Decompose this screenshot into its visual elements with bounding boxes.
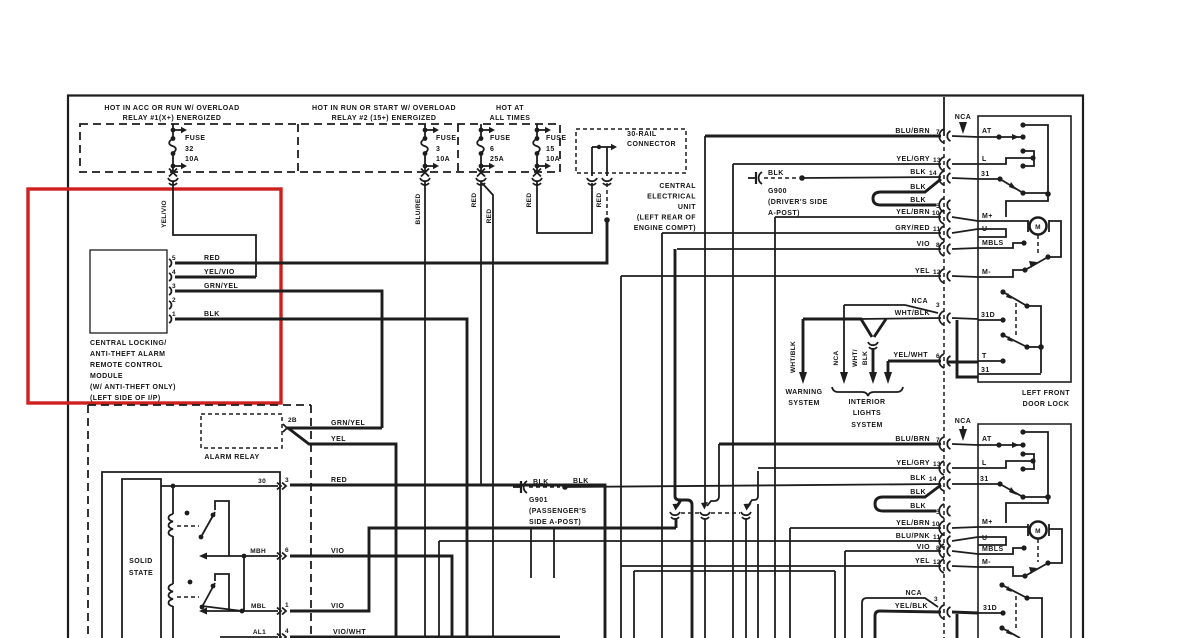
svg-text:FUSE: FUSE [436, 135, 456, 142]
module pin 4 [169, 273, 171, 281]
wire RED dashed 30-rail right pin [606, 183, 608, 217]
svg-text:WARNING: WARNING [786, 389, 823, 396]
module pin 5 [169, 259, 171, 267]
31D switch upper [1000, 289, 1005, 294]
svg-text:4: 4 [285, 628, 289, 635]
svg-text:M: M [1035, 528, 1041, 535]
31D switch lower bottom [999, 625, 1004, 630]
svg-text:MBLS: MBLS [982, 546, 1004, 553]
svg-text:YEL/GRY: YEL/GRY [896, 460, 930, 467]
switch 1 [177, 525, 199, 527]
link MBH-MBL [243, 556, 245, 611]
gang dashed line [681, 512, 740, 514]
svg-text:CENTRAL: CENTRAL [659, 183, 696, 190]
wire VIO pin6 [290, 556, 452, 638]
svg-text:NCA: NCA [955, 418, 972, 425]
svg-text:WHT/: WHT/ [852, 349, 859, 367]
svg-text:14: 14 [929, 476, 937, 483]
svg-text:VIO/WHT: VIO/WHT [333, 629, 366, 636]
pin 30/3 [161, 485, 278, 487]
svg-text:RED: RED [526, 193, 533, 208]
wire YEL/GRY bottom row [758, 467, 941, 469]
svg-text:(W/ ANTI-THEFT ONLY): (W/ ANTI-THEFT ONLY) [90, 384, 176, 391]
svg-text:3: 3 [934, 596, 938, 603]
wire YEL bottom row [621, 565, 941, 567]
dashed coupler bottom [1015, 596, 1017, 628]
svg-text:M-: M- [982, 559, 991, 566]
svg-text:ENGINE COMPT): ENGINE COMPT) [634, 225, 696, 232]
connector-to-box stubs top section [952, 136, 978, 319]
svg-text:6: 6 [490, 146, 494, 153]
svg-text:31: 31 [981, 171, 990, 178]
wire WHT/BLK row [859, 318, 941, 319]
M- switch arm bottom [1025, 563, 1048, 576]
svg-text:BLU/BRN: BLU/BRN [895, 436, 930, 443]
svg-text:RELAY #1(X+) ENERGIZED: RELAY #1(X+) ENERGIZED [123, 115, 222, 122]
svg-text:10A: 10A [185, 156, 199, 163]
svg-text:WHT/BLK: WHT/BLK [895, 310, 930, 317]
svg-text:MBL: MBL [251, 603, 266, 610]
svg-text:BLU/RED: BLU/RED [415, 194, 422, 225]
31D-31 bottom link [956, 614, 959, 638]
svg-text:(LEFT SIDE OF I/P): (LEFT SIDE OF I/P) [90, 395, 161, 402]
switch 2 [177, 596, 199, 598]
svg-text:LIGHTS: LIGHTS [853, 410, 881, 417]
svg-text:SYSTEM: SYSTEM [788, 400, 819, 407]
pin MBH/6 [207, 555, 278, 557]
svg-text:32: 32 [185, 146, 194, 153]
30-rail pins [587, 144, 617, 185]
svg-text:YEL: YEL [915, 268, 930, 275]
svg-text:RED: RED [331, 477, 347, 484]
svg-text:AT: AT [982, 128, 992, 135]
svg-text:LEFT FRONT: LEFT FRONT [1022, 390, 1070, 397]
wire GRN/YEL 2B [287, 427, 382, 430]
pin MBL/1 [207, 610, 278, 612]
red highlight box [28, 189, 281, 403]
wire YEL/VIO pin4 [175, 276, 256, 279]
relay coil 1 [171, 484, 176, 489]
svg-text:INTERIOR: INTERIOR [848, 399, 885, 406]
Y3 tail down [745, 518, 747, 638]
svg-text:UNIT: UNIT [678, 204, 696, 211]
M- switch arm [1025, 257, 1048, 270]
svg-text:BLK: BLK [910, 184, 926, 191]
inline connector Y1 [670, 512, 680, 519]
wire NCA bottom row [862, 598, 867, 638]
svg-text:HOT IN ACC OR RUN W/ OVERLOAD: HOT IN ACC OR RUN W/ OVERLOAD [104, 105, 239, 112]
motor dashed link [1037, 235, 1039, 256]
svg-text:30-RAIL: 30-RAIL [627, 131, 657, 138]
wire YEL row [621, 275, 941, 277]
fuse 6 [476, 124, 510, 185]
wire GRY/RED row [662, 232, 941, 234]
svg-text:BLK: BLK [910, 475, 926, 482]
solid state box [102, 472, 280, 638]
BLK bottom loop [875, 485, 941, 511]
inline connector Y2 [700, 512, 710, 519]
svg-text:10A: 10A [436, 156, 450, 163]
svg-text:T: T [982, 353, 987, 360]
wire RED branch fuse 6 [482, 183, 493, 638]
svg-text:FUSE: FUSE [185, 135, 205, 142]
Y1 tail to junction [675, 518, 678, 528]
svg-text:5: 5 [172, 255, 176, 262]
svg-text:YEL/VIO: YEL/VIO [204, 269, 235, 276]
svg-text:HOT AT: HOT AT [496, 105, 524, 112]
wire VIO drop to Y1 [675, 249, 692, 638]
svg-text:NCA: NCA [955, 114, 972, 121]
wire RED pin5 [175, 220, 607, 263]
svg-text:GRY/RED: GRY/RED [895, 225, 930, 232]
svg-text:14: 14 [929, 170, 937, 177]
YEL/BRN bottom corner drop [789, 528, 791, 638]
wire GRY/RED drop [661, 233, 663, 638]
svg-text:2: 2 [172, 297, 176, 304]
svg-text:15: 15 [546, 146, 555, 153]
module pin 2 [169, 301, 171, 309]
svg-text:AL1: AL1 [253, 629, 266, 636]
pin AL1/4 [220, 636, 278, 638]
svg-text:10A: 10A [546, 156, 560, 163]
31D switch upper bottom [999, 582, 1004, 587]
svg-text:2B: 2B [288, 417, 297, 424]
svg-text:BLK: BLK [533, 479, 549, 486]
svg-text:(PASSENGER'S: (PASSENGER'S [529, 508, 587, 515]
interior lights brace [832, 387, 903, 396]
motor right rail bottom [1049, 529, 1062, 563]
svg-text:4: 4 [172, 269, 176, 276]
dashed coupler [1015, 303, 1017, 337]
svg-text:3: 3 [285, 477, 289, 484]
svg-text:STATE: STATE [129, 570, 153, 577]
svg-text:NCA: NCA [833, 351, 840, 366]
svg-text:L: L [982, 460, 987, 467]
motor M [1030, 218, 1047, 235]
svg-text:NCA: NCA [911, 298, 928, 305]
svg-text:BLK: BLK [910, 503, 926, 510]
svg-text:DOOR LOCK: DOOR LOCK [1023, 401, 1070, 408]
motor dashed link bottom [1037, 539, 1039, 562]
svg-text:BLK: BLK [862, 351, 869, 365]
svg-text:REMOTE CONTROL: REMOTE CONTROL [90, 362, 163, 369]
wire 31D to 31 link [957, 320, 978, 377]
svg-text:M+: M+ [982, 519, 993, 526]
svg-text:25A: 25A [490, 156, 504, 163]
svg-text:ELECTRICAL: ELECTRICAL [647, 194, 696, 201]
svg-text:RED: RED [486, 209, 493, 224]
wire YEL/BRN bottom row [790, 527, 941, 529]
wire YEL/VIO from fuse 32 [173, 182, 256, 277]
inline connector Y3 [741, 512, 751, 519]
svg-text:3: 3 [172, 283, 176, 290]
svg-text:BLK: BLK [768, 170, 784, 177]
central locking module box [90, 250, 167, 333]
relay coil 2 [169, 584, 174, 607]
warning system arrow [802, 319, 805, 372]
svg-text:YEL/WHT: YEL/WHT [893, 352, 928, 359]
wire GRN/YEL pin3 [175, 291, 382, 428]
svg-text:31D: 31D [981, 312, 995, 319]
svg-text:1: 1 [285, 602, 289, 609]
connector-to-box stubs bottom section [952, 444, 978, 567]
wire YEL/GRY row [733, 163, 941, 165]
motor right rail [1049, 221, 1061, 257]
svg-text:RED: RED [204, 255, 220, 262]
svg-text:1: 1 [172, 311, 176, 318]
svg-text:YEL/GRY: YEL/GRY [896, 156, 930, 163]
svg-text:AT: AT [982, 436, 992, 443]
svg-text:BLU/BRN: BLU/BRN [895, 128, 930, 135]
wire YEL/WHT row [888, 360, 941, 363]
wire YEL/BRN row [775, 216, 941, 218]
svg-text:GRN/YEL: GRN/YEL [331, 420, 366, 427]
motor M bottom [1030, 522, 1047, 539]
svg-text:FUSE: FUSE [546, 135, 566, 142]
WHT/BLK arrow [872, 348, 875, 372]
svg-text:GRN/YEL: GRN/YEL [204, 283, 239, 290]
svg-text:M-: M- [982, 269, 991, 276]
wire BLU/PNK bottom row [439, 540, 941, 542]
Y2 side feed from bottom row [707, 444, 719, 506]
svg-text:3: 3 [936, 302, 940, 309]
svg-text:30: 30 [258, 478, 266, 485]
wire YEL M- top to bottom [620, 276, 622, 638]
svg-text:M+: M+ [982, 213, 993, 220]
wire YEL/BLK bottom row [875, 611, 880, 638]
svg-text:3: 3 [436, 146, 440, 153]
svg-text:SOLID: SOLID [129, 558, 153, 565]
wire YEL/GRY drop [732, 164, 734, 638]
svg-text:BLK: BLK [910, 197, 926, 204]
svg-text:M: M [1035, 224, 1041, 231]
svg-text:CONNECTOR: CONNECTOR [627, 141, 676, 148]
svg-text:31D: 31D [983, 605, 997, 612]
wire RED pin30 [290, 485, 605, 638]
module pin 3 [169, 287, 171, 295]
svg-text:YEL/BRN: YEL/BRN [896, 520, 930, 527]
Y2 tail down [704, 518, 706, 638]
svg-text:U: U [982, 535, 988, 542]
svg-text:CENTRAL LOCKING/: CENTRAL LOCKING/ [90, 340, 167, 347]
wire VIO/WHT pin4 [290, 636, 560, 638]
svg-text:YEL/BLK: YEL/BLK [895, 603, 928, 610]
module pin 1 [169, 315, 171, 323]
svg-text:ANTI-THEFT ALARM: ANTI-THEFT ALARM [90, 351, 165, 358]
svg-text:FUSE: FUSE [490, 135, 510, 142]
drop at 531 [530, 528, 532, 578]
fuse 32 [168, 124, 205, 185]
svg-text:SIDE A-POST): SIDE A-POST) [529, 519, 581, 526]
outer frame [68, 96, 1083, 638]
wire NCA row [844, 305, 938, 313]
wire BLU/BRN drop to Y2 [704, 136, 706, 505]
svg-text:RED: RED [471, 193, 478, 208]
wire BLK pin1 [175, 319, 467, 638]
wire at y571 [634, 570, 835, 572]
BLU/PNK corner drop [438, 541, 440, 638]
svg-text:WHT/BLK: WHT/BLK [790, 341, 797, 373]
svg-text:YEL/BRN: YEL/BRN [896, 209, 930, 216]
svg-text:YEL: YEL [915, 558, 930, 565]
drop at 554 [553, 528, 555, 578]
svg-text:BLK: BLK [204, 311, 220, 318]
BLK loop [873, 179, 941, 205]
apex connector [868, 342, 878, 349]
dashed control unit enclosure [88, 404, 311, 406]
wire BLK G901 to bottom pin 14 [565, 484, 941, 487]
svg-text:NCA: NCA [905, 590, 922, 597]
svg-text:G900: G900 [768, 188, 787, 195]
fuse strip divider 2 [457, 124, 459, 172]
alarm relay dashed box [201, 414, 282, 448]
wire BLU/RED from fuse 3 [424, 182, 426, 638]
svg-text:RELAY #2 (15+) ENERGIZED: RELAY #2 (15+) ENERGIZED [332, 115, 437, 122]
fuse 3 [420, 124, 456, 185]
svg-text:L: L [982, 156, 987, 163]
inner box [122, 479, 161, 638]
wire BLU/BRN row [705, 135, 941, 138]
svg-text:VIO: VIO [917, 241, 931, 248]
wire YEL/BRN drop [774, 217, 776, 638]
svg-text:31: 31 [981, 367, 990, 374]
svg-text:VIO: VIO [331, 603, 345, 610]
svg-text:ALL TIMES: ALL TIMES [490, 115, 531, 122]
31D switch lower [1000, 332, 1005, 337]
svg-text:YEL: YEL [331, 436, 346, 443]
svg-text:BLK: BLK [910, 169, 926, 176]
wire YEL 2B [288, 428, 396, 638]
svg-text:31: 31 [980, 476, 989, 483]
wire VIO pin1 [290, 528, 676, 611]
wire RED from fuse 6 [480, 182, 482, 485]
wire BLK G900 to pin 14 [802, 177, 941, 178]
svg-text:MBH: MBH [250, 548, 266, 555]
svg-text:YEL/VIO: YEL/VIO [161, 200, 168, 228]
svg-text:BLK: BLK [910, 489, 926, 496]
svg-text:(LEFT REAR OF: (LEFT REAR OF [637, 215, 696, 222]
svg-text:VIO: VIO [331, 548, 345, 555]
wire VIO bottom row [845, 550, 941, 552]
Y3 feed from YEL/GRY bottom row [748, 471, 758, 638]
svg-text:HOT IN RUN OR START W/ OVERLOA: HOT IN RUN OR START W/ OVERLOAD [312, 105, 456, 112]
30-rail connector dashed box [576, 129, 686, 173]
wire VIO row [677, 248, 941, 250]
svg-text:BLK: BLK [573, 478, 589, 485]
fuse strip divider 1 [297, 124, 299, 172]
svg-text:G901: G901 [529, 497, 548, 504]
svg-text:MODULE: MODULE [90, 373, 123, 380]
svg-text:VIO: VIO [917, 544, 931, 551]
wire RED from fuse 15 to 30-rail [537, 182, 592, 233]
svg-text:SYSTEM: SYSTEM [851, 422, 882, 429]
svg-text:MBLS: MBLS [982, 240, 1004, 247]
svg-text:ALARM RELAY: ALARM RELAY [204, 454, 259, 461]
svg-text:RED: RED [596, 193, 603, 208]
svg-text:A-POST): A-POST) [768, 210, 800, 217]
fuse 15 [532, 124, 566, 185]
wire BLU/BRN bottom row [719, 443, 941, 446]
svg-text:6: 6 [285, 547, 289, 554]
svg-text:BLU/PNK: BLU/PNK [896, 533, 930, 540]
svg-text:(DRIVER'S SIDE: (DRIVER'S SIDE [768, 199, 828, 206]
fuse strip dashed box [80, 124, 560, 172]
NCA arrow [843, 305, 845, 372]
